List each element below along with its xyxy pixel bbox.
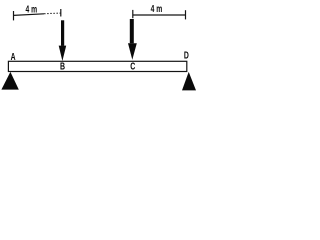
dimension line 4 m between A and B xyxy=(14,9,61,20)
pin support at D (filled triangle) xyxy=(182,72,196,91)
node label C xyxy=(130,60,136,72)
beam AD (rectangular outline) xyxy=(8,61,186,71)
svg-text:A: A xyxy=(11,51,16,63)
svg-text:4 m: 4 m xyxy=(26,3,38,15)
pin support at A (filled triangle) xyxy=(1,72,18,90)
node label D xyxy=(184,49,189,61)
node label A xyxy=(11,51,16,63)
point load arrow at C xyxy=(128,19,137,60)
dimension label 4 m (left span) xyxy=(26,3,38,15)
dimension line 4 m between C and D xyxy=(133,10,186,20)
dimension label 4 m (right span) xyxy=(151,3,163,15)
svg-text:C: C xyxy=(130,60,136,72)
svg-text:B: B xyxy=(60,60,65,72)
svg-text:D: D xyxy=(184,49,189,61)
node label B xyxy=(60,60,65,72)
svg-text:4 m: 4 m xyxy=(151,3,163,15)
point load arrow at B xyxy=(59,20,66,61)
